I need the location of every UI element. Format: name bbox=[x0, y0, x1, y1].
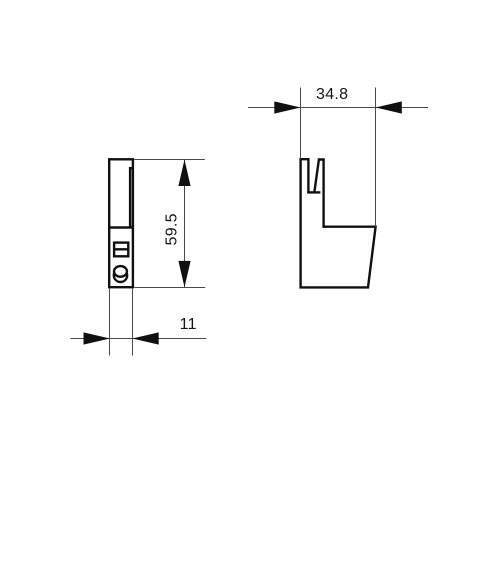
extension line left of 11 bbox=[109, 289, 111, 356]
extension line bottom of 59.5 bbox=[134, 287, 205, 289]
front view divider line bbox=[109, 226, 133, 228]
dimension line 34.8 bbox=[248, 107, 428, 109]
extension line right of 34.8 bbox=[375, 88, 377, 227]
dimension line 59.5 bbox=[184, 159, 186, 287]
arrow down 59.5 bbox=[178, 261, 190, 287]
arrow pointing right 11 bbox=[84, 332, 110, 344]
profile outline bbox=[301, 159, 376, 287]
extension line left of 34.8 bbox=[300, 88, 302, 160]
arrow pointing left 34.8 bbox=[375, 101, 401, 113]
terminal window mid line bbox=[114, 248, 128, 250]
extension line right of 11 bbox=[132, 289, 134, 356]
svg-text:11: 11 bbox=[180, 316, 197, 333]
svg-text:34.8: 34.8 bbox=[316, 86, 348, 103]
front view hinge line with top cap bbox=[130, 168, 133, 227]
arrow up 59.5 bbox=[178, 160, 190, 186]
screw lower circle bbox=[114, 269, 127, 282]
terminal window rectangle bbox=[114, 243, 128, 257]
dimension line 11 bbox=[70, 338, 206, 340]
extension line top of 59.5 bbox=[134, 159, 205, 161]
profile slot bottom bbox=[307, 191, 320, 193]
svg-text:59.5: 59.5 bbox=[163, 213, 180, 245]
arrow pointing right 34.8 bbox=[274, 101, 300, 113]
arrow pointing left 11 bbox=[132, 332, 158, 344]
screw upper circle bbox=[114, 266, 127, 277]
front view outer body bbox=[109, 159, 133, 287]
